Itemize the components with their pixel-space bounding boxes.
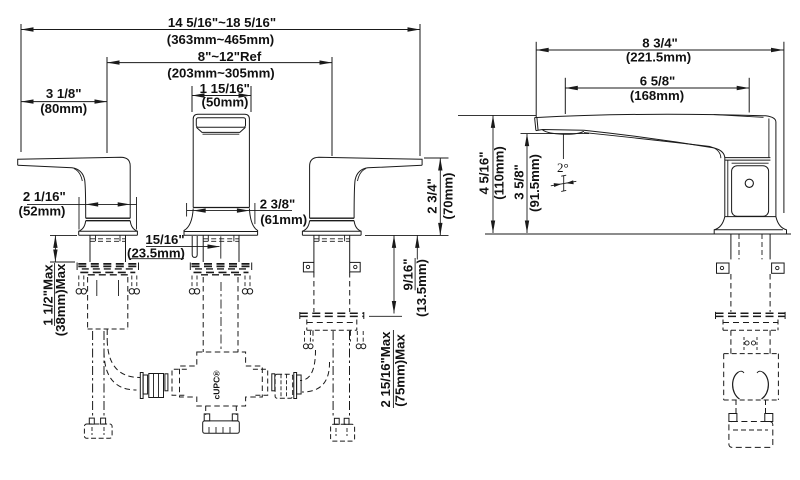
dimension 9/16 (13.5mm) bbox=[369, 235, 429, 317]
svg-text:2 15/16"Max: 2 15/16"Max bbox=[378, 331, 393, 408]
svg-text:(221.5mm): (221.5mm) bbox=[626, 50, 691, 65]
svg-text:(91.5mm): (91.5mm) bbox=[527, 154, 542, 212]
svg-text:(13.5mm): (13.5mm) bbox=[414, 259, 429, 317]
dimension 14 5/16~18 5/16 overall width bbox=[21, 15, 420, 156]
svg-text:2 3/4": 2 3/4" bbox=[425, 178, 440, 214]
side shank hidden walls bbox=[731, 274, 770, 312]
side shank bbox=[731, 234, 770, 259]
right supply tube end fitting bbox=[331, 418, 355, 441]
side bottom fitting bbox=[729, 414, 773, 448]
right hose fitting bbox=[275, 373, 301, 399]
svg-text:(80mm): (80mm) bbox=[40, 101, 87, 116]
svg-text:cUPC®: cUPC® bbox=[212, 370, 222, 400]
svg-text:6 5/8": 6 5/8" bbox=[640, 73, 676, 88]
dimension 2 3/8 (61mm) spout base bbox=[187, 197, 308, 228]
svg-text:14 5/16"~18 5/16": 14 5/16"~18 5/16" bbox=[168, 15, 276, 30]
tee left port bbox=[165, 369, 187, 395]
svg-text:8"~12"Ref: 8"~12"Ref bbox=[198, 49, 262, 64]
dimension 2 1/16 (52mm) handle base bbox=[19, 189, 137, 230]
svg-text:(50mm): (50mm) bbox=[202, 94, 249, 109]
right valve lower body bbox=[303, 330, 365, 348]
svg-text:2°: 2° bbox=[557, 160, 569, 175]
svg-text:(23.5mm): (23.5mm) bbox=[127, 245, 185, 260]
dimension 1 1/2 Max (38mm) Max bbox=[41, 235, 78, 336]
left hose elbow bbox=[104, 329, 140, 390]
center drop tube bbox=[203, 277, 238, 352]
spout centerline bbox=[220, 236, 222, 258]
svg-text:(168mm): (168mm) bbox=[630, 88, 684, 103]
right valve castle nut bbox=[300, 312, 364, 330]
side base flare bbox=[714, 217, 786, 234]
aerator bbox=[543, 130, 584, 134]
svg-text:(61mm): (61mm) bbox=[260, 212, 307, 227]
svg-text:(75mm)Max: (75mm)Max bbox=[393, 334, 408, 407]
tee cross body bbox=[180, 352, 263, 406]
dimension 1 15/16 (50mm) spout width bbox=[192, 81, 251, 112]
side connector body bbox=[724, 354, 779, 400]
tee right port bbox=[253, 369, 275, 395]
deck line bbox=[485, 233, 791, 235]
right valve body walls bbox=[314, 272, 350, 312]
center mounting nut bbox=[189, 263, 252, 294]
lift rod bbox=[192, 236, 197, 257]
svg-text:2 1/16": 2 1/16" bbox=[23, 189, 66, 204]
dimension 2 3/4 (70mm) handle height bbox=[424, 158, 456, 235]
svg-text:(38mm)Max: (38mm)Max bbox=[53, 263, 68, 336]
svg-text:8 3/4": 8 3/4" bbox=[642, 35, 678, 50]
svg-text:(363mm~465mm): (363mm~465mm) bbox=[167, 32, 274, 47]
left hose fitting bbox=[140, 373, 163, 399]
dimension 3 1/8 (80mm) left offset bbox=[21, 86, 107, 116]
side body face bbox=[725, 158, 771, 217]
side bottom tube bbox=[736, 400, 766, 415]
svg-text:(52mm): (52mm) bbox=[19, 204, 66, 219]
extension line base bottom bbox=[365, 234, 449, 236]
side lower body bbox=[731, 330, 770, 353]
spout base flare bbox=[184, 209, 258, 236]
left valve body bbox=[88, 277, 128, 329]
side castle nut bbox=[716, 312, 786, 330]
svg-text:3 1/8": 3 1/8" bbox=[46, 86, 82, 101]
dimension 15/16 (23.5mm) lift rod offset bbox=[127, 232, 220, 260]
svg-text:(70mm): (70mm) bbox=[441, 173, 456, 220]
center shank bbox=[203, 236, 239, 263]
dimension 6 5/8 (168mm) bbox=[565, 73, 749, 114]
left valve shank bbox=[90, 236, 126, 263]
svg-text:(110mm): (110mm) bbox=[492, 146, 507, 200]
svg-text:(203mm~305mm): (203mm~305mm) bbox=[167, 66, 274, 81]
svg-text:3 5/8": 3 5/8" bbox=[512, 164, 527, 200]
svg-text:2 3/8": 2 3/8" bbox=[260, 197, 296, 212]
left supply tube bbox=[93, 331, 104, 418]
dimension 4 5/16 (110mm) bbox=[458, 115, 536, 233]
dimension 8~12 Ref handle centers bbox=[107, 49, 332, 156]
left supply tube end fitting bbox=[84, 418, 112, 438]
right valve bolt tabs bbox=[303, 262, 360, 272]
tee bottom outlet bbox=[203, 406, 240, 433]
handle right lever bbox=[302, 157, 422, 235]
handle left escutcheon flare bbox=[79, 221, 138, 236]
right supply tube bbox=[333, 331, 349, 416]
svg-text:4 5/16": 4 5/16" bbox=[477, 152, 492, 195]
dimension 8 3/4 (221.5mm) bbox=[536, 35, 784, 213]
dimension 3 5/8 (91.5mm) bbox=[512, 134, 590, 233]
right valve shank bbox=[314, 236, 350, 263]
handle left base band bbox=[86, 218, 131, 221]
side view spout outline bbox=[535, 114, 776, 216]
right hose elbow bbox=[300, 350, 330, 392]
left valve mounting nut bbox=[76, 263, 139, 294]
dimension 2 15/16 Max (75mm) Max bbox=[378, 330, 408, 408]
spout front body bbox=[193, 114, 249, 207]
handle left lever bbox=[18, 157, 131, 218]
angle 2 deg annotation bbox=[551, 135, 577, 192]
side bolt tabs bbox=[717, 263, 785, 273]
